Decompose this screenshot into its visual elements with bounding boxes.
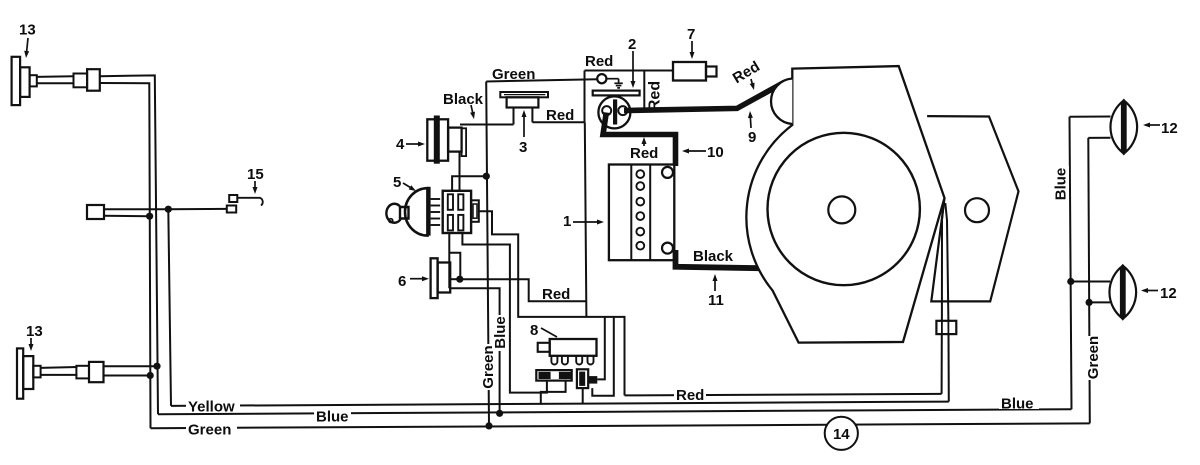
key block pin 4 [458, 215, 463, 231]
wire engine left to red bus [941, 334, 943, 394]
junction dot green-left [147, 372, 154, 379]
module 8 pin 4 [588, 356, 594, 365]
wire key block top to green node [452, 176, 486, 191]
junction dot yellow-top [165, 206, 172, 213]
label Blue rotated left [492, 315, 509, 351]
wire jog to switch6 node [449, 253, 460, 280]
cable 10 (solenoid to battery +) [603, 113, 676, 167]
label Black [443, 91, 484, 119]
svg-text:8: 8 [530, 322, 538, 339]
wire switch4 to breaker 3 [460, 124, 514, 126]
wire lamp13b top to blue [104, 365, 157, 367]
arrow red diagonal [751, 79, 753, 85]
wire bracket top to fuse 7 [585, 70, 674, 72]
svg-text:Green: Green [480, 345, 497, 388]
wire square to green-left [104, 215, 150, 218]
wire lamp13a stem [36, 76, 73, 83]
wire switch6 to node [450, 278, 460, 280]
battery terminal top [662, 167, 673, 178]
label Blue rotated [1053, 166, 1070, 203]
wire switch6 run [460, 279, 587, 301]
junction dot green bus [485, 422, 492, 429]
wire connector8 left to yellow bus [541, 381, 566, 405]
switch 6 [431, 258, 451, 298]
wire green vertical right [1088, 138, 1090, 424]
svg-text:Red: Red [676, 387, 704, 404]
crankshaft [828, 196, 855, 223]
label 3 [519, 110, 527, 156]
svg-text:Green: Green [1085, 336, 1102, 379]
wire branch to connector 8 right [597, 317, 605, 380]
key block pin 1 [448, 194, 453, 210]
ground symbol [607, 79, 623, 88]
lamp 12 upper [1110, 99, 1137, 156]
label 12 lower [1141, 285, 1177, 302]
module 8 pin 1 [551, 356, 557, 365]
label Green bottom [186, 420, 237, 439]
label 13 lower [26, 323, 43, 351]
wire engine pair right [945, 203, 948, 321]
battery cell 3 [636, 198, 644, 206]
wire switch4 down to key block [459, 152, 461, 190]
engine body [746, 66, 944, 343]
wire yellow bus [171, 402, 949, 406]
key block side tab [471, 200, 479, 222]
wire hook 15 [237, 198, 262, 206]
terminal 15 lower [227, 206, 236, 213]
svg-text:Blue: Blue [492, 316, 509, 349]
wire lamp13b bottom to green [104, 375, 151, 377]
label Red (cable10) [630, 137, 658, 162]
engine connector [936, 321, 956, 334]
connector lamp13a [74, 69, 100, 91]
junction dot switch6 [456, 276, 463, 283]
lamp 12 lower [1109, 264, 1136, 321]
junction dot on green-left [146, 213, 153, 220]
connector (left square plug) [87, 205, 104, 219]
svg-text:Green: Green [188, 422, 231, 439]
wire blue to lamp12b [1071, 281, 1110, 283]
svg-text:14: 14 [833, 426, 850, 443]
svg-text:Red: Red [542, 286, 570, 303]
connector 8 right [577, 369, 597, 388]
wire key block pin1 down [448, 233, 450, 288]
wire lamp13a to harness (top) [100, 75, 158, 414]
flywheel [768, 133, 920, 285]
label 10 [682, 144, 724, 161]
wire engine right to yellow bus [948, 334, 950, 402]
label 5 [393, 174, 416, 191]
wire lamp13b stem [41, 367, 78, 375]
svg-text:15: 15 [247, 166, 264, 183]
lamp 13 (lower left headlight) [17, 348, 41, 398]
battery terminal bottom [662, 243, 673, 254]
svg-text:Red: Red [630, 145, 658, 162]
module 8 pin 2 [562, 356, 568, 365]
svg-text:4: 4 [396, 136, 405, 153]
cable 9 (solenoid to starter) [624, 83, 784, 111]
label 6 [398, 273, 429, 290]
junction dot green node [483, 173, 490, 180]
wire square to yellow node [104, 208, 168, 210]
svg-text:13: 13 [26, 323, 43, 340]
switch 4 [427, 116, 466, 164]
key switch neck ribs [431, 199, 441, 225]
cable 11 (battery - to engine ground) [676, 250, 760, 268]
battery cell 2 [636, 182, 644, 190]
battery cell 6 [636, 242, 644, 250]
svg-text:Red: Red [585, 53, 613, 70]
svg-text:9: 9 [748, 129, 756, 146]
circuit breaker 3 [500, 92, 548, 125]
terminal ring (green wire) [597, 74, 606, 83]
svg-text:Black: Black [693, 248, 734, 265]
svg-text:12: 12 [1161, 120, 1178, 137]
key block [443, 191, 471, 233]
label Blue right [999, 394, 1039, 413]
svg-text:Blue: Blue [1053, 168, 1070, 201]
svg-text:6: 6 [398, 273, 406, 290]
svg-text:13: 13 [19, 22, 36, 39]
svg-text:Red: Red [647, 81, 664, 111]
terminal 15 upper [229, 195, 237, 202]
wire blue vertical right [1070, 117, 1072, 409]
connector lamp13b [76, 362, 103, 382]
label Blue left [314, 409, 351, 426]
wire lamp13a to harness (bottom) [100, 83, 151, 428]
label 13 upper [19, 22, 36, 59]
solenoid 2 body [598, 96, 630, 128]
svg-text:5: 5 [393, 174, 401, 191]
module 8 pin 3 [576, 356, 582, 365]
module 8 body [538, 339, 597, 356]
junction dot blue-left [153, 363, 160, 370]
wire blue bus [158, 409, 1072, 414]
wire breaker3 to solenoid bracket [532, 121, 584, 123]
battery cell 5 [636, 228, 644, 236]
battery 1 [609, 165, 674, 261]
svg-text:2: 2 [628, 36, 636, 53]
wire bracket drop to cable [643, 71, 645, 113]
solenoid 2 plate [593, 91, 640, 96]
label 11 [708, 274, 724, 309]
engine PTO hexagon [927, 116, 1018, 301]
callout 14 [825, 417, 858, 450]
wire green to lamp12b [1089, 301, 1110, 303]
svg-text:7: 7 [687, 26, 695, 43]
lamp 13 (upper left headlight) [12, 57, 37, 105]
label 7 [687, 26, 695, 59]
svg-text:3: 3 [519, 139, 527, 156]
solenoid 2 bar [613, 99, 617, 124]
key switch 5 bell [405, 187, 431, 236]
junction dot green lamp [1086, 299, 1093, 306]
label 12 upper [1143, 120, 1178, 137]
wire red bus [625, 394, 942, 396]
wire yellow vertical [168, 209, 171, 406]
label 4 [396, 136, 425, 153]
svg-text:Blue: Blue [316, 409, 349, 426]
wire green vertical [486, 82, 489, 426]
label Red bus [674, 386, 706, 404]
solenoid terminal right [618, 106, 627, 115]
solenoid terminal left [602, 106, 611, 115]
label 8 [530, 322, 557, 339]
starter hump [771, 79, 792, 125]
key block pin 3 [448, 215, 453, 231]
wire connector8 right to yellow bus [582, 388, 584, 404]
label 15 [247, 166, 264, 194]
svg-text:Black: Black [443, 91, 484, 108]
svg-text:Blue: Blue [1001, 396, 1034, 413]
PTO circle [965, 198, 989, 222]
label 9 [748, 111, 756, 146]
svg-text:Red: Red [730, 58, 763, 87]
wire key block pin2 to connector 8 left [462, 233, 547, 393]
wire yellow node to 15 [168, 208, 227, 210]
junction dot blue lamp [1067, 278, 1074, 285]
junction dot blue bus [496, 410, 503, 417]
label Yellow [186, 397, 240, 416]
wire connector8 right loop to harness [592, 317, 614, 396]
wire key block tab staircase [478, 211, 624, 395]
wire blue to lamp12a [1070, 116, 1111, 118]
svg-text:10: 10 [707, 144, 724, 161]
wire green horizontal to solenoid terminal [486, 79, 597, 81]
wire blue run from switch [449, 288, 499, 413]
connector 8 left [536, 370, 571, 381]
wire solenoid red drop [585, 122, 587, 317]
key [386, 204, 408, 223]
wire green bus [151, 423, 1090, 428]
label 2 [628, 36, 636, 88]
label Green rotated left [480, 344, 497, 390]
svg-text:1: 1 [563, 213, 571, 230]
label Green rotated right [1085, 336, 1103, 380]
wire engine pair left [942, 203, 944, 321]
fuse 7 [673, 62, 717, 81]
svg-text:11: 11 [708, 292, 724, 309]
label 1 [563, 213, 604, 230]
battery cell 1 [636, 170, 644, 178]
battery cell 4 [636, 212, 644, 220]
wire bracket left edge [584, 71, 586, 123]
key block pin 2 [458, 194, 463, 210]
wire green to lamp12a [1088, 137, 1110, 139]
svg-text:12: 12 [1160, 285, 1177, 302]
